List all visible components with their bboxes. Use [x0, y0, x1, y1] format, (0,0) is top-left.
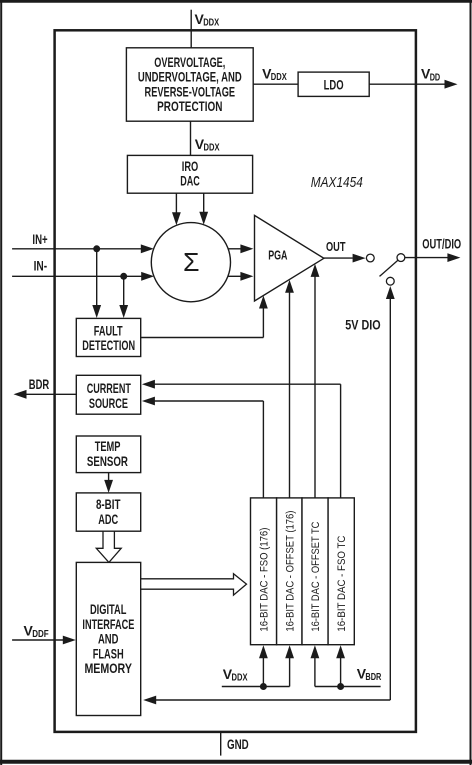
wire summer to PGA (lower): [228, 272, 253, 281]
svg-text:PROTECTION: PROTECTION: [157, 98, 222, 114]
wire VDDX pin to overvoltage block: [190, 10, 192, 49]
wire VDDX net to DACs: [222, 645, 294, 686]
svg-text:SOURCE: SOURCE: [89, 395, 128, 411]
wire LDO to VDD output pin: [369, 80, 457, 89]
block: digital interface and flash memory: [76, 562, 140, 715]
switch arm (open, from OUT/DIO pole): [380, 260, 398, 276]
node VDDX (DAC supply net label): [223, 666, 248, 684]
svg-text:DD: DD: [430, 72, 441, 83]
svg-text:DDX: DDX: [271, 72, 287, 83]
block: overvoltage/undervoltage/reverse-voltage protection: [126, 48, 253, 121]
wire IN+ tap down to fault detection: [92, 249, 101, 318]
wire DAC OFFSET(176) to PGA input 2: [285, 280, 294, 498]
svg-text:TEMP: TEMP: [95, 438, 121, 454]
svg-text:REVERSE-VOLTAGE: REVERSE-VOLTAGE: [145, 83, 236, 99]
node IN- (input pin label): [34, 258, 48, 274]
svg-text:FLASH: FLASH: [93, 645, 124, 661]
wire overvoltage block to IRO DAC (net VDDX): [190, 121, 192, 155]
node OUT (net label): [326, 239, 346, 254]
junction dot on IN- wire: [120, 273, 127, 280]
node GND (pin label): [227, 737, 249, 752]
wire DAC FSO(176) to current source (lower): [142, 397, 264, 498]
svg-text:OVERVOLTAGE,: OVERVOLTAGE,: [154, 54, 225, 70]
block: 16-bit DAC - OFFSET TC: [302, 498, 328, 645]
label: 5V DIO: [345, 316, 380, 332]
svg-text:DDX: DDX: [232, 672, 248, 683]
svg-text:SENSOR: SENSOR: [87, 453, 128, 469]
block: IRO DAC: [127, 155, 252, 193]
svg-text:DAC: DAC: [180, 173, 200, 189]
svg-text:DETECTION: DETECTION: [82, 337, 135, 353]
figure outer frame left rule: [0, 0, 2, 765]
summing node (sigma) circle: [151, 223, 230, 302]
wire DIO switch to digital interface (5V DIO net): [143, 286, 395, 704]
svg-text:IRO: IRO: [182, 158, 199, 174]
node BDR (output pin label): [29, 376, 49, 392]
wire current source to BDR pin: [14, 390, 77, 399]
figure outer frame right rule: [470, 0, 472, 765]
svg-text:MEMORY: MEMORY: [84, 660, 132, 676]
wire IRO DAC to summer (right arrow): [199, 193, 208, 225]
switch contact circle C (DIO side): [386, 277, 394, 285]
svg-text:DDX: DDX: [203, 17, 219, 28]
svg-text:16-BIT DAC - FSO TC: 16-BIT DAC - FSO TC: [336, 536, 348, 632]
node VBDR (DAC supply net label): [357, 666, 382, 684]
svg-text:CURRENT: CURRENT: [87, 380, 131, 396]
block: 16-bit DAC - FSO (176): [251, 498, 277, 645]
node OUT/DIO (output pin label): [422, 236, 461, 252]
block: 16-bit DAC - FSO TC: [328, 498, 354, 645]
switch contact circle B (OUT/DIO pole): [397, 254, 405, 262]
svg-text:PGA: PGA: [268, 248, 287, 262]
svg-text:Σ: Σ: [183, 247, 200, 277]
wire IN+ input to summer: [12, 244, 154, 253]
label: MAX1454 part name: [311, 175, 363, 191]
node VDD (output pin label): [421, 66, 440, 84]
svg-text:8-BIT: 8-BIT: [96, 496, 121, 512]
wire DAC OFFSET TC to PGA input 3: [311, 264, 320, 498]
svg-text:MAX1454: MAX1454: [311, 175, 363, 191]
junction dot on IN+ wire: [93, 245, 100, 252]
svg-text:ADC: ADC: [98, 511, 118, 527]
block: 8-bit ADC: [76, 493, 140, 531]
svg-text:16-BIT DAC - FSO (176): 16-BIT DAC - FSO (176): [258, 528, 270, 632]
switch contact circle A (OUT side): [366, 254, 374, 262]
svg-text:16-BIT DAC - OFFSET TC: 16-BIT DAC - OFFSET TC: [310, 522, 322, 632]
svg-text:DDF: DDF: [32, 629, 49, 640]
block: current source: [76, 375, 140, 414]
wire temp sensor to ADC: [104, 473, 113, 493]
svg-text:OUT/DIO: OUT/DIO: [422, 236, 461, 252]
node VDDF (input pin label): [24, 622, 49, 640]
figure outer frame top rule: [0, 0, 472, 3]
svg-text:16-BIT DAC - OFFSET (176): 16-BIT DAC - OFFSET (176): [284, 511, 296, 632]
svg-text:IN-: IN-: [34, 258, 48, 274]
block: temp sensor: [76, 436, 140, 473]
svg-text:BDR: BDR: [29, 376, 49, 392]
svg-text:DDX: DDX: [204, 143, 220, 154]
wire IN- input to summer: [12, 272, 154, 281]
wire PGA output OUT: [324, 254, 366, 263]
wire DAC FSO TC to current source (upper): [142, 380, 341, 498]
bus arrow digital interface to DACs (hollow): [141, 574, 247, 595]
wire summer to PGA (upper): [229, 244, 254, 253]
svg-text:AND: AND: [98, 631, 119, 647]
wire IN- tap down to fault detection: [119, 276, 128, 318]
node VDDX (top supply pin label): [195, 11, 220, 29]
svg-text:LDO: LDO: [324, 77, 344, 93]
junction dot VBDR/DAC4: [337, 683, 344, 690]
node VDDX (LDO input net label): [262, 66, 287, 84]
svg-text:FAULT: FAULT: [94, 322, 123, 338]
wire VBDR net to DACs: [311, 645, 381, 686]
svg-text:OUT: OUT: [326, 239, 346, 254]
figure outer frame bottom rule: [0, 760, 472, 764]
chip boundary box MAX1454: [55, 30, 416, 732]
wire switch pole to OUT/DIO pin: [405, 253, 461, 262]
block: LDO regulator: [298, 72, 369, 96]
amplifier PGA: [255, 215, 324, 301]
wire IRO DAC to summer (left arrow): [172, 193, 181, 225]
svg-text:5V DIO: 5V DIO: [345, 316, 380, 332]
wire GND pin stub: [220, 732, 222, 756]
svg-text:DIGITAL: DIGITAL: [90, 601, 127, 617]
node IN+ (input pin label): [32, 231, 47, 247]
svg-text:BDR: BDR: [365, 672, 382, 683]
wire fault detection to PGA input 1: [141, 296, 268, 338]
block: 16-bit DAC - OFFSET (176): [277, 498, 302, 645]
svg-text:IN+: IN+: [32, 231, 47, 247]
wire overvoltage block to LDO (net VDDX): [253, 83, 298, 85]
node VDDX (IRO DAC supply net label): [195, 136, 220, 154]
svg-text:GND: GND: [227, 737, 249, 752]
junction dot VDDX/DAC1: [260, 683, 267, 690]
wire VDDF pin to digital interface: [12, 636, 76, 645]
bus arrow ADC to digital interface (hollow): [96, 531, 121, 562]
block: fault detection: [76, 318, 140, 356]
svg-text:INTERFACE: INTERFACE: [82, 616, 134, 632]
svg-text:UNDERVOLTAGE, AND: UNDERVOLTAGE, AND: [138, 69, 242, 85]
